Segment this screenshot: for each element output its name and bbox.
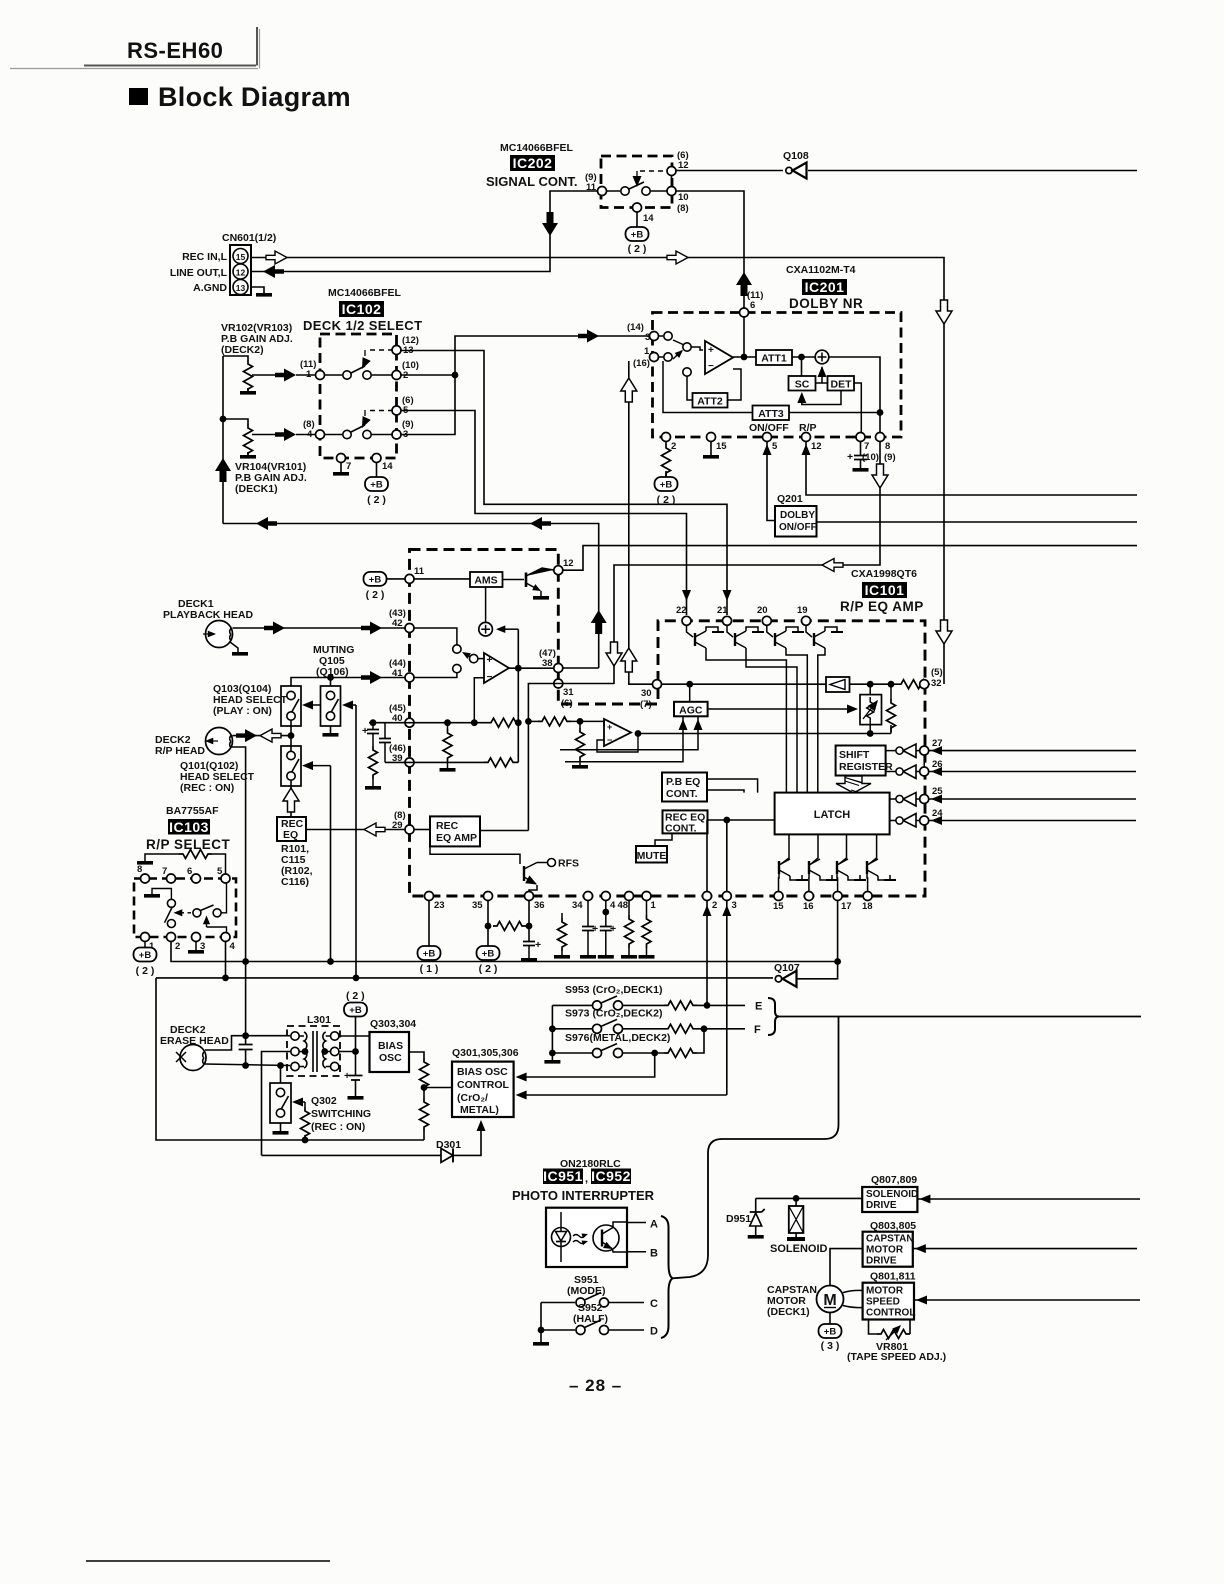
potentiometer VR801 xyxy=(869,1320,911,1341)
IC102 pin 4 xyxy=(316,430,325,439)
wire +B to pin11 xyxy=(387,578,406,580)
wire IC102 pin2+pin3 merge to IC201 pin3 xyxy=(401,336,649,435)
thick down arrow on x550 xyxy=(542,212,558,236)
svg-text:IC202: IC202 xyxy=(513,155,553,171)
+B (2) supply IC202 xyxy=(626,227,649,241)
svg-text:( 2 ): ( 2 ) xyxy=(366,589,385,601)
switch S952 xyxy=(541,1320,644,1335)
svg-text:IC201: IC201 xyxy=(805,279,845,295)
svg-text:( 2 ): ( 2 ) xyxy=(657,494,676,506)
svg-text:M: M xyxy=(823,1292,836,1309)
cap below pin34 xyxy=(580,901,598,959)
IC101 pin 36 xyxy=(525,892,534,901)
svg-text:11: 11 xyxy=(586,182,597,193)
DECK2 R/P head xyxy=(205,728,233,755)
svg-text:ATT3: ATT3 xyxy=(758,408,784,420)
IC101 pin 3 xyxy=(722,892,731,901)
svg-text:MOTOR: MOTOR xyxy=(866,1245,904,1256)
wire DECK2 head lower terminal down x245.6 xyxy=(230,747,246,962)
svg-text:10: 10 xyxy=(678,192,689,203)
wire solenoid rail xyxy=(756,1197,863,1199)
IC202 pin 10 xyxy=(667,187,676,196)
svg-text:( 3 ): ( 3 ) xyxy=(821,1340,840,1352)
svg-text:D301: D301 xyxy=(436,1139,461,1151)
wire summer to pin8 riser xyxy=(829,357,880,432)
ground below resistor xyxy=(365,786,381,790)
svg-text:CONTROL: CONTROL xyxy=(457,1079,509,1091)
ground pin36 cap xyxy=(521,958,537,962)
IC101 label box xyxy=(862,582,907,598)
junction VR rail / VR104 xyxy=(220,416,227,423)
svg-text:( 2 ): ( 2 ) xyxy=(136,965,155,977)
brace A-D xyxy=(661,1216,673,1338)
svg-text:Q108: Q108 xyxy=(783,150,809,162)
wire speed control input from right edge xyxy=(914,1299,1140,1301)
summer circle AMS xyxy=(479,587,518,636)
wire E/F branch down to photo interrupter loop xyxy=(673,1017,839,1279)
IC101 pin 42 xyxy=(405,624,414,633)
+B (2) supply IC102 xyxy=(365,477,388,491)
wire pin35 to +B xyxy=(487,901,489,946)
ground Q105 xyxy=(323,733,339,737)
svg-text:,: , xyxy=(585,1173,588,1185)
svg-text:( 2 ): ( 2 ) xyxy=(367,494,386,506)
wire cro2 select from IC101 pin3 xyxy=(522,1094,727,1096)
wire DECK2 head to switch junction xyxy=(233,735,292,737)
wire Q101 bottom to REC EQ xyxy=(290,780,292,817)
IC103 pin 1 xyxy=(141,933,150,942)
ground below pin7 cap xyxy=(853,468,869,472)
transistor T22 xyxy=(687,626,725,652)
wire DECK1 head to pin42 xyxy=(233,627,406,629)
wire pin12-pin10 xyxy=(671,175,673,187)
wire divider mid to control box xyxy=(424,1087,452,1089)
junction cap1 xyxy=(370,719,377,726)
svg-text:ON/OFF: ON/OFF xyxy=(779,522,817,533)
svg-text:+: + xyxy=(610,923,616,935)
svg-text:34: 34 xyxy=(572,900,583,911)
junction pin35 resistor xyxy=(485,923,492,930)
svg-text:(CrO₂/: (CrO₂/ xyxy=(457,1092,488,1104)
IC101 pin 34 xyxy=(584,892,593,901)
solid arrow on head line (right) xyxy=(361,622,382,635)
svg-text:CONT.: CONT. xyxy=(666,788,698,800)
svg-text:Q803,805: Q803,805 xyxy=(870,1220,916,1232)
wire pin8 playback out down and left xyxy=(614,442,880,684)
IC202 label box xyxy=(510,155,555,171)
+B (2) supply pin11 xyxy=(364,572,387,586)
wire pin25 from right edge xyxy=(929,798,1136,800)
junction rec rail on y961.5 xyxy=(327,958,334,965)
block SOLENOID DRIVE xyxy=(862,1187,918,1212)
svg-text:Q201: Q201 xyxy=(777,493,803,505)
IC201 pin 1 xyxy=(650,353,659,362)
wire VR feed rail x223 from playback return line xyxy=(222,356,224,524)
svg-text:38: 38 xyxy=(542,658,553,669)
svg-text:12: 12 xyxy=(678,160,689,171)
IC102 switch lower xyxy=(325,410,392,439)
svg-text:R/P SELECT: R/P SELECT xyxy=(146,837,231,852)
svg-text:12: 12 xyxy=(563,558,574,569)
IC101 pin 29 xyxy=(405,825,414,834)
wire pin2 rail down to CrO2 deck1 line xyxy=(706,820,708,1005)
svg-text:Q301,305,306: Q301,305,306 xyxy=(452,1047,519,1059)
svg-text:BIAS OSC: BIAS OSC xyxy=(457,1066,508,1078)
svg-text:L301: L301 xyxy=(307,1014,331,1026)
inverter pin24 xyxy=(890,814,920,828)
solid arrow VR102 wiper to pin1 xyxy=(275,369,296,382)
svg-text:22: 22 xyxy=(676,605,687,616)
model number box RS-EH60 xyxy=(10,27,260,69)
IC101 pin 17 xyxy=(833,892,842,901)
wire BIAS OSC out to divider xyxy=(409,1052,424,1058)
wire pin38 to riser x598.7 xyxy=(563,667,599,669)
IC103 internal switch 2 xyxy=(193,883,227,932)
junction Q103/Q101 common xyxy=(288,732,295,739)
junction muting rail on mode line xyxy=(353,975,360,982)
ground DECK1 head xyxy=(232,652,248,656)
svg-text:PHOTO INTERRUPTER: PHOTO INTERRUPTER xyxy=(512,1188,655,1203)
svg-text:IC951: IC951 xyxy=(543,1168,583,1184)
variable resistor pot box xyxy=(860,695,882,725)
IC202 pin 11 xyxy=(598,187,607,196)
wire arrow to IC102 pin1 xyxy=(296,374,315,376)
junction feedback tap xyxy=(515,665,522,672)
svg-text:( 2 ): ( 2 ) xyxy=(479,963,498,975)
svg-text:14: 14 xyxy=(382,461,393,472)
wire rec control line to Q107/pin17 xyxy=(331,961,838,963)
wire muting line to pin41 xyxy=(291,678,405,687)
svg-text:EQ AMP: EQ AMP xyxy=(436,832,477,844)
junction bias control tap on S976 line xyxy=(651,1050,658,1057)
electrolytic cap bias xyxy=(344,1052,363,1097)
open arrow on REC IN line xyxy=(266,251,287,264)
wire box left to pin29 xyxy=(414,829,430,831)
IC201 pin 15 xyxy=(707,433,716,442)
svg-text:MUTE: MUTE xyxy=(637,850,667,862)
wire pin31 record line xyxy=(528,684,614,831)
IC101 pin 31 xyxy=(554,679,563,688)
latch output transistor 16 xyxy=(809,834,838,891)
svg-text:32: 32 xyxy=(931,678,942,689)
svg-text:+: + xyxy=(847,451,853,463)
wire pin5 from DOLBY ON/OFF xyxy=(767,442,775,521)
transistor AMS output xyxy=(503,568,554,596)
transistor RFS xyxy=(430,846,579,892)
svg-text:AMS: AMS xyxy=(474,575,497,587)
wire head to ground xyxy=(230,642,238,652)
svg-text:E: E xyxy=(755,1000,762,1012)
svg-text:+: + xyxy=(487,655,493,666)
resistor divider bottom xyxy=(423,1088,425,1099)
IC101 pin 27 xyxy=(920,746,929,755)
wire E/F combined to right edge xyxy=(779,1016,1141,1018)
inverter pin27 xyxy=(886,744,920,758)
svg-text:7: 7 xyxy=(864,441,869,452)
wire pin29 to REC EQ AMP handled; wire box to record rail xyxy=(480,830,528,832)
wire REC EQ to pin29 xyxy=(306,829,405,831)
svg-text:8: 8 xyxy=(885,441,890,452)
transistor Q108 xyxy=(676,150,809,179)
resistor Q302 base xyxy=(301,1102,310,1140)
wire capstan drive input from right edge xyxy=(913,1248,1137,1250)
connector CN601(1/2) xyxy=(170,232,276,295)
svg-text:OSC: OSC xyxy=(379,1052,402,1064)
junction divider mid xyxy=(421,1084,428,1091)
IC102 label box xyxy=(339,301,384,317)
IC103 pin 2 xyxy=(167,933,176,942)
svg-text:A: A xyxy=(650,1219,658,1231)
wire mode line y977.9 from erase loop to Q107 input xyxy=(156,977,773,979)
wire LINE OUT,L from IC202 pin11 xyxy=(251,191,602,272)
wire ATT3 out to pin8 riser xyxy=(789,412,880,414)
svg-text:IC103: IC103 xyxy=(169,819,209,835)
DECK2 erase head xyxy=(176,1045,206,1071)
wire +B to L301 mid-right xyxy=(339,1017,356,1052)
IC101 pin 11 xyxy=(405,574,414,583)
resistor pin35-pin36 xyxy=(493,922,526,931)
svg-text:15: 15 xyxy=(716,441,727,452)
DECK1 playback head xyxy=(203,621,233,648)
resistor pin40 to ground xyxy=(447,723,449,729)
potentiometer VR104 xyxy=(223,419,276,459)
svg-text:BIAS: BIAS xyxy=(378,1040,403,1052)
IC101 pin 25 xyxy=(920,795,929,804)
block ATT3 xyxy=(753,406,790,421)
photo interrupter box xyxy=(546,1208,627,1267)
svg-text:REC IN,L: REC IN,L xyxy=(182,251,228,263)
IC101 pin 32 xyxy=(920,680,929,689)
rec control rail x330.5 down xyxy=(330,766,332,962)
svg-text:R/P HEAD: R/P HEAD xyxy=(155,745,205,757)
svg-text:+: + xyxy=(535,939,541,951)
wire arrow to IC102 pin4 xyxy=(296,434,315,436)
transistor T21 xyxy=(727,626,764,652)
ground bias cap xyxy=(348,1096,364,1100)
IC101 pin 26 xyxy=(920,767,929,776)
svg-text:12: 12 xyxy=(811,441,822,452)
IC101 pin 19 xyxy=(802,616,811,625)
switch Q105 muting xyxy=(321,686,341,726)
op-amp IC201 xyxy=(705,341,733,374)
junction pot top xyxy=(867,681,874,688)
wire pin30 to mirror and pin32 xyxy=(662,683,897,685)
svg-text:29: 29 xyxy=(392,820,403,831)
IC101 pin 24 xyxy=(920,816,929,825)
svg-text:3: 3 xyxy=(645,332,650,343)
svg-text:Q801,811: Q801,811 xyxy=(870,1271,916,1283)
IC201 pin 6 xyxy=(740,308,749,317)
svg-text:CXA1998QT6: CXA1998QT6 xyxy=(851,568,917,580)
svg-text:Q302: Q302 xyxy=(311,1095,337,1107)
svg-text:DOLBY: DOLBY xyxy=(780,510,815,521)
wire pin40 line xyxy=(369,722,487,724)
junction res top xyxy=(888,681,895,688)
junction solenoid top xyxy=(793,1195,800,1202)
svg-text:2: 2 xyxy=(175,941,180,952)
junction pin2 line on x455 xyxy=(452,372,459,379)
svg-text:19: 19 xyxy=(797,605,808,616)
svg-text:MOTOR: MOTOR xyxy=(866,1286,904,1297)
svg-text:LINE OUT,L: LINE OUT,L xyxy=(170,267,228,279)
IC101 pin 18 xyxy=(863,892,872,901)
wire DOLBY ON/OFF control from right edge xyxy=(817,521,1138,523)
block DOLBY ON/OFF Q201 xyxy=(775,506,817,537)
hollow up arrow on record riser (lower) xyxy=(621,648,637,672)
svg-text:SOLENOID: SOLENOID xyxy=(866,1189,918,1200)
transistor Q107 xyxy=(774,962,800,987)
wire pin15 to ground xyxy=(710,441,712,455)
coupling capacitor xyxy=(239,1045,253,1050)
svg-text:DECK 1/2 SELECT: DECK 1/2 SELECT xyxy=(303,318,422,333)
wire capstan drive to motor xyxy=(830,1249,863,1286)
wires transistor collectors to latch rails xyxy=(706,652,786,793)
block BIAS OSC CONTROL xyxy=(452,1062,514,1117)
block SHIFT REGISTER xyxy=(836,746,893,776)
svg-text:(MODE): (MODE) xyxy=(567,1285,606,1297)
svg-text:IC101: IC101 xyxy=(865,582,905,598)
junction Q105 top xyxy=(327,674,334,681)
thick up arrow on x598.7 riser xyxy=(591,610,607,634)
svg-text:Block Diagram: Block Diagram xyxy=(158,82,351,112)
wire DET bottom loop to SC xyxy=(802,391,841,405)
wire L301 top-right to BIAS OSC xyxy=(339,1035,370,1037)
solenoid coil xyxy=(787,1198,805,1241)
IC101 pin 1 xyxy=(642,892,651,901)
svg-text:ATT2: ATT2 xyxy=(697,396,723,408)
hollow left arrow into REC EQ xyxy=(364,823,385,836)
solid arrow on deck select play line xyxy=(578,330,599,343)
ground IC102 pin7 xyxy=(333,472,349,476)
resistor beside pot xyxy=(890,684,892,699)
resistor below pin48 xyxy=(621,901,637,959)
resistor below pin1 xyxy=(639,901,655,959)
LED inside photo interrupter xyxy=(552,1212,571,1262)
block SC xyxy=(789,376,816,391)
svg-text:MC14066BFEL: MC14066BFEL xyxy=(500,142,574,154)
latch output transistor 18 xyxy=(867,834,896,891)
svg-text:8: 8 xyxy=(137,864,142,875)
ground A.GND xyxy=(256,293,272,297)
svg-text:– 28 –: – 28 – xyxy=(569,1376,622,1395)
svg-text:4: 4 xyxy=(230,941,236,952)
title Block Diagram xyxy=(129,82,351,112)
hollow up arrow into Q101 xyxy=(283,788,299,812)
svg-text:CAPSTAN: CAPSTAN xyxy=(866,1234,914,1245)
svg-text:(HALF): (HALF) xyxy=(573,1313,608,1325)
svg-text:+: + xyxy=(362,725,368,737)
svg-text:C: C xyxy=(650,1298,658,1310)
wire SC feed down xyxy=(801,357,803,376)
IC101 pin 35 xyxy=(484,892,493,901)
wire REC EQ CONT to latch xyxy=(708,819,775,821)
wire pin2 to rec control line y961.5 xyxy=(171,941,331,962)
capacitor below pin7 xyxy=(847,441,867,468)
solid left arrow on return line (right) xyxy=(530,517,551,530)
svg-text:S973 (CrO₂,DECK2): S973 (CrO₂,DECK2) xyxy=(565,1008,662,1020)
resistor left of pin34 xyxy=(554,913,570,959)
svg-text:A.GND: A.GND xyxy=(193,282,227,294)
phototransistor inside xyxy=(593,1222,627,1252)
junction ATT1/SC feed xyxy=(798,354,805,361)
svg-text:(10): (10) xyxy=(862,452,879,463)
svg-text:+: + xyxy=(592,923,598,935)
IC201 input select switch xyxy=(659,332,703,400)
svg-text:(DECK2): (DECK2) xyxy=(221,344,264,356)
resistor across IC103 top xyxy=(145,850,226,875)
svg-text:−: − xyxy=(708,361,714,372)
IC101 pin 41 xyxy=(405,673,414,682)
hollow up arrow on record riser (upper) xyxy=(621,378,637,402)
wire pin39 line xyxy=(385,761,484,763)
svg-text:(7): (7) xyxy=(640,699,652,710)
IC102 pin 2 xyxy=(392,371,401,380)
ground Q302 xyxy=(273,1131,289,1135)
wire minus input feedback riser xyxy=(474,678,484,723)
IC201 label box xyxy=(802,279,847,295)
block P.B EQ CONT. xyxy=(662,773,707,802)
svg-text:CXA1102M-T4: CXA1102M-T4 xyxy=(786,264,856,276)
feedback resistor pin39 xyxy=(484,758,517,767)
hatched arrow shift register to latch xyxy=(836,776,871,793)
IC103 pin 6 xyxy=(192,874,201,883)
IC103 label box xyxy=(168,819,210,835)
+B (3) supply motor xyxy=(819,1324,842,1338)
IC101 pin 39 xyxy=(405,758,414,767)
hollow down arrow into pin31 line xyxy=(606,642,622,666)
wire ATT2 out to amp minus xyxy=(728,369,742,400)
svg-text:IC102: IC102 xyxy=(342,301,382,317)
wire pin12 R/P control from right edge xyxy=(806,442,1137,495)
svg-text:SIGNAL CONT.: SIGNAL CONT. xyxy=(486,174,578,189)
svg-text:DOLBY NR: DOLBY NR xyxy=(789,296,863,311)
block CAPSTAN MOTOR DRIVE xyxy=(863,1232,914,1267)
hollow down arrow on x944 (at IC101) xyxy=(936,620,952,644)
wire erase head bottom to L301 xyxy=(205,1064,290,1066)
junction AGC tap xyxy=(686,681,693,688)
svg-text:(TAPE SPEED ADJ.): (TAPE SPEED ADJ.) xyxy=(847,1351,946,1363)
wires motor to speed control xyxy=(843,1290,863,1307)
junction deck2 rail on erase top xyxy=(242,1032,249,1039)
svg-text:PLAYBACK HEAD: PLAYBACK HEAD xyxy=(163,609,253,621)
switch Q101 head select xyxy=(281,746,301,786)
svg-text:(DECK1): (DECK1) xyxy=(767,1306,810,1318)
IC103 pin 3 xyxy=(192,933,201,942)
svg-text:(5): (5) xyxy=(931,667,943,678)
block MUTE xyxy=(636,846,667,863)
wire solenoid drive input from right edge xyxy=(917,1198,1140,1200)
svg-text:20: 20 xyxy=(757,605,768,616)
IC201 pin 3 xyxy=(650,332,659,341)
summer circle xyxy=(815,350,829,364)
svg-text:CONT.: CONT. xyxy=(665,822,697,834)
svg-text:(14): (14) xyxy=(627,322,644,333)
wire pin26 from right edge xyxy=(929,771,1136,773)
hollow left arrow on deck2 head line xyxy=(260,729,281,742)
IC101 pin 38 xyxy=(554,664,563,673)
wire op-amp out to pin38 xyxy=(509,667,554,669)
wire amp out to ATT1 xyxy=(733,356,756,358)
solid arrow on deck2 head line xyxy=(236,729,257,742)
S973 switch (CrO2,DECK2) xyxy=(552,1008,745,1034)
feedback resistor pin40 xyxy=(487,718,520,727)
inverter pin25 xyxy=(890,793,920,807)
wire pin36 down xyxy=(528,901,530,941)
inverter pin26 xyxy=(886,765,920,779)
svg-text:31: 31 xyxy=(563,687,574,698)
wire pin24 from right edge xyxy=(929,820,1136,822)
wire DET output to pin7 xyxy=(854,383,861,432)
